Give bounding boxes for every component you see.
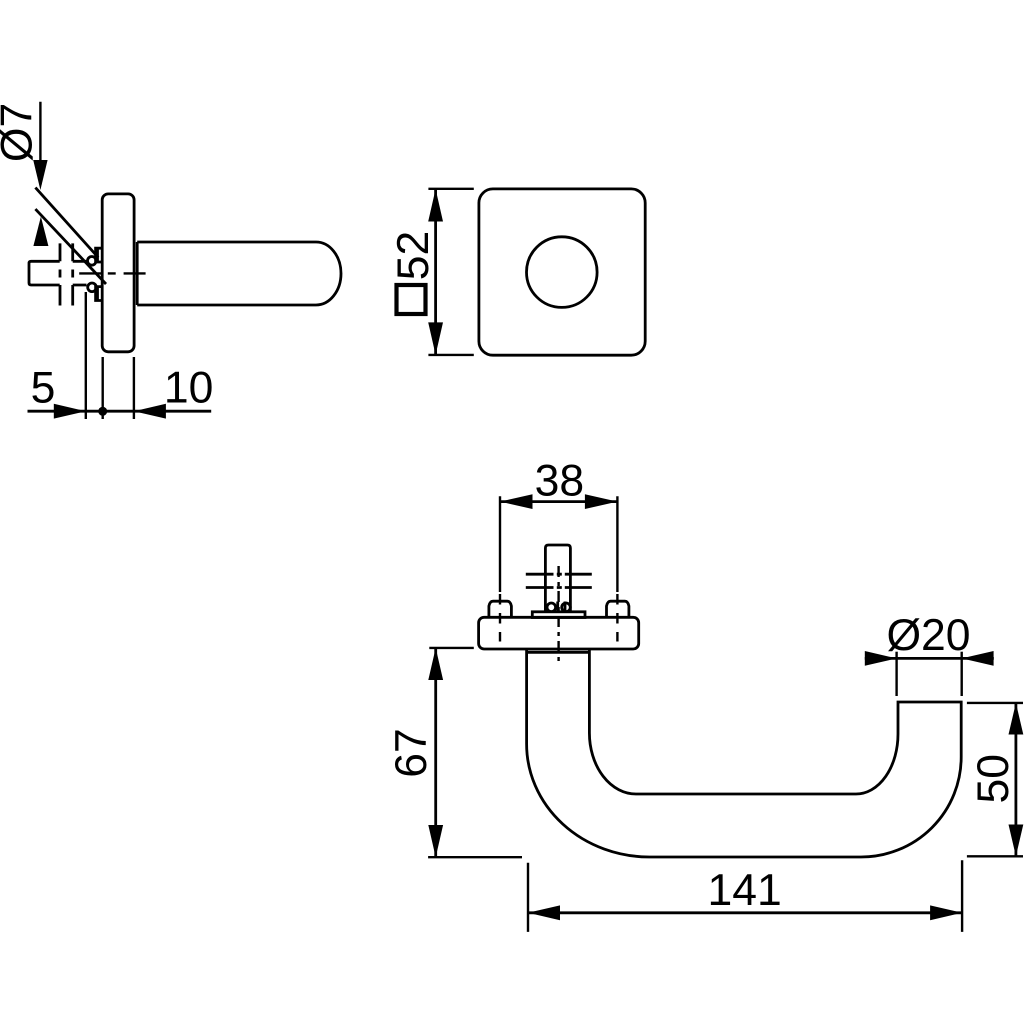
dimension 52: top arrow bbox=[428, 189, 443, 222]
spindle square bar (end view) bbox=[545, 545, 570, 612]
svg-text:38: 38 bbox=[535, 457, 585, 506]
spindle pin (side view) bbox=[29, 261, 87, 285]
svg-text:10: 10 bbox=[164, 364, 214, 413]
lever handle outline bbox=[527, 649, 962, 857]
dimension 5: arrow bbox=[54, 404, 86, 419]
dimension Ø20: left arrow bbox=[865, 651, 897, 666]
vertical centerline (lever) bbox=[557, 566, 559, 661]
handle neck cylinder (side view) bbox=[137, 242, 341, 305]
dimension Ø20: right extension line bbox=[961, 652, 963, 696]
dimension Ø20: left extension line bbox=[895, 652, 897, 696]
rosette (side view) bbox=[102, 194, 134, 352]
washer / clip ring (hidden behind pin, dashed middle) bbox=[60, 243, 73, 305]
rosette bar (under lever) bbox=[479, 617, 639, 649]
dimension 67: bottom extension line bbox=[428, 856, 522, 858]
square rosette plate bbox=[479, 189, 645, 355]
dimension 67: dimension line bbox=[434, 648, 437, 857]
svg-text:Ø20: Ø20 bbox=[886, 611, 970, 660]
grub screw circle left bbox=[547, 603, 556, 612]
dimension 50: bottom arrow bbox=[1009, 825, 1024, 857]
spindle cross line upper bbox=[526, 573, 592, 576]
centerline (side view) bbox=[79, 272, 145, 274]
spindle cross line lower bbox=[526, 586, 592, 589]
dimension Ø7: lower arrow bbox=[33, 217, 48, 246]
dimension Ø20: dimension line bbox=[865, 657, 994, 660]
dimension 52: bottom arrow bbox=[428, 322, 443, 355]
dimension Ø7: leader diagonal 1 bbox=[35, 188, 98, 258]
fixing lug right bbox=[607, 601, 629, 617]
clip circle lower bbox=[88, 283, 97, 292]
grub screw circle right bbox=[562, 603, 571, 612]
dimension 5/10: dimension line bbox=[28, 410, 212, 413]
svg-text:141: 141 bbox=[707, 866, 781, 915]
dimension 38: left arrow bbox=[500, 494, 533, 509]
dimension 141: dimension line bbox=[528, 911, 962, 914]
dimension 5/10: extension line B bbox=[101, 357, 103, 419]
dimension 50: dimension line bbox=[1015, 703, 1018, 856]
dimension 67: bottom arrow bbox=[428, 825, 443, 857]
dimension 50: top extension line bbox=[967, 702, 1023, 704]
dimension 50: bottom extension line bbox=[967, 855, 1023, 857]
grub screw stem left bbox=[556, 602, 559, 612]
dimension 50: top arrow bbox=[1009, 703, 1024, 735]
dimension 38: right arrow bbox=[585, 494, 618, 509]
dimension Ø7: upper arrow bbox=[33, 160, 47, 190]
svg-text:5: 5 bbox=[31, 364, 56, 413]
dimension 67: top arrow bbox=[428, 648, 443, 680]
dimension 38: right extension line bbox=[616, 496, 618, 641]
dimension 141: right extension line bbox=[961, 860, 963, 932]
dimension 5/10: extension line A bbox=[85, 292, 87, 419]
dimension 38: left extension line bbox=[499, 496, 501, 641]
dimension 5/10: extension line C bbox=[133, 357, 135, 419]
spindle tab upper bbox=[96, 248, 103, 262]
fixing lug left bbox=[489, 601, 512, 617]
dimension 38: dimension line bbox=[500, 500, 617, 503]
dimension 141: left arrow bbox=[528, 905, 560, 920]
dimension 5/10: dot at rosette face bbox=[98, 407, 107, 416]
lever neck shoulder line bbox=[527, 651, 590, 654]
spindle tab lower bbox=[96, 287, 103, 301]
svg-text:Ø7: Ø7 bbox=[0, 103, 42, 162]
dimension 141: right arrow bbox=[930, 905, 962, 920]
svg-text:52: 52 bbox=[389, 231, 438, 281]
dimension 52: dimension line bbox=[434, 189, 437, 355]
dimension 52: square symbol bbox=[397, 285, 426, 314]
dimension Ø20: right arrow bbox=[962, 651, 994, 666]
grub screw stem right bbox=[564, 602, 567, 612]
svg-text:50: 50 bbox=[969, 754, 1018, 804]
dimension 141: left extension line bbox=[527, 863, 529, 932]
dimension Ø7: leader diagonal 2 bbox=[35, 209, 106, 284]
clip circle upper bbox=[88, 257, 97, 266]
dimension 10: arrow bbox=[134, 404, 166, 419]
rosette hole circle bbox=[527, 237, 598, 308]
bearing plate bbox=[532, 612, 585, 618]
dimension 52: bottom extension line bbox=[428, 354, 473, 356]
dimension Ø7: extension line bbox=[39, 102, 41, 185]
dimension 67: top extension line bbox=[429, 647, 474, 649]
dimension 52: top extension line bbox=[428, 188, 473, 190]
svg-text:67: 67 bbox=[387, 728, 436, 778]
